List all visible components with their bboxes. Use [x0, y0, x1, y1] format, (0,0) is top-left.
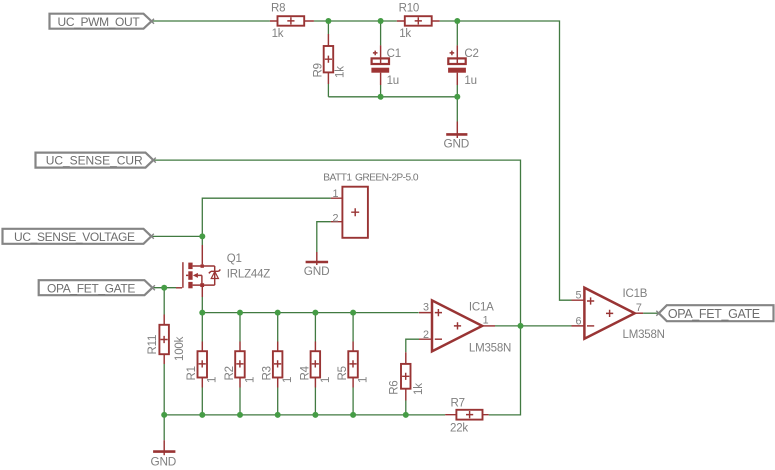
svg-text:C2: C2: [464, 48, 478, 60]
resistor R7: [445, 410, 489, 420]
wire OPA_FET_GATE to Q1 gate: [152, 287, 176, 289]
resistor R4: [311, 342, 321, 388]
junction node D: [199, 233, 205, 239]
svg-text:7: 7: [636, 302, 642, 314]
junction bottom bus R3: [275, 412, 281, 418]
svg-text:R4: R4: [299, 365, 311, 380]
svg-text:3: 3: [423, 302, 429, 314]
svg-text:UC_SENSE_VOLTAGE: UC_SENSE_VOLTAGE: [14, 230, 135, 244]
wire bottom bus to GND3: [163, 415, 165, 440]
svg-text:R6: R6: [389, 380, 401, 394]
svg-text:R3: R3: [262, 366, 274, 380]
wire R2 top stub: [239, 313, 241, 342]
capacitor C1: [371, 45, 389, 85]
svg-text:R10: R10: [399, 3, 420, 15]
junction top bus R5: [350, 310, 356, 316]
capacitor C2: [448, 45, 466, 85]
wire gate node to R11: [163, 288, 165, 315]
junction top bus R3: [275, 310, 281, 316]
junction bottom bus R2: [237, 412, 243, 418]
wire R3 top stub: [277, 313, 279, 342]
wire R3 bottom stub: [277, 388, 279, 415]
wire R4 bottom stub: [314, 388, 316, 415]
junction top bus R4: [312, 310, 318, 316]
svg-text:1k: 1k: [413, 383, 425, 395]
wire R10 to IC1B pin5 corner: [440, 21, 572, 300]
wire C2 to GND1: [456, 97, 458, 122]
resistor R1: [198, 342, 208, 388]
flag OPA_FET_GATE right: [656, 305, 773, 321]
svg-text:1: 1: [358, 377, 370, 383]
svg-text:1: 1: [282, 377, 294, 383]
svg-text:C1: C1: [387, 48, 401, 60]
wire IC1A pin2 to R6: [406, 339, 419, 352]
ground GND2 below BATT1: [306, 252, 329, 265]
resistor R11: [159, 315, 169, 365]
resistor R10: [397, 16, 440, 26]
junction bottom bus R6: [403, 412, 409, 418]
junction C1 bottom: [378, 94, 384, 100]
svg-text:IC1B: IC1B: [623, 288, 648, 300]
junction bottom bus R11: [161, 412, 167, 418]
wire top bus to IC1A pin3: [202, 312, 418, 314]
wire R8 to R10: [314, 20, 397, 22]
wire BATT1 pin1 to node D: [202, 198, 331, 236]
svg-text:OPA_FET_GATE: OPA_FET_GATE: [668, 307, 760, 321]
svg-text:1: 1: [244, 377, 256, 383]
svg-text:R2: R2: [224, 366, 236, 380]
resistor R5: [348, 342, 358, 388]
wire UC_SENSE_VOLTAGE to node D: [151, 235, 202, 237]
resistor R9: [324, 34, 334, 84]
junction bottom bus R1: [199, 412, 205, 418]
svg-text:GREEN-2P-5.0: GREEN-2P-5.0: [355, 173, 419, 184]
svg-text:R5: R5: [337, 366, 349, 380]
svg-text:1k: 1k: [272, 28, 284, 40]
svg-text:22k: 22k: [450, 423, 468, 435]
svg-text:R7: R7: [451, 397, 465, 409]
resistor R3: [273, 342, 283, 388]
flag UC_SENSE_VOLTAGE: [3, 229, 154, 244]
wire RC bottom bus: [328, 96, 457, 98]
svg-text:1: 1: [483, 314, 489, 326]
wire R1 top stub: [201, 313, 203, 342]
svg-text:R9: R9: [313, 63, 325, 77]
junction bottom bus R5: [350, 412, 356, 418]
svg-text:R11: R11: [147, 335, 159, 355]
wire bottom bus: [164, 414, 445, 416]
junction R8-R9: [325, 18, 331, 24]
svg-text:1k: 1k: [399, 28, 411, 40]
wire R9 bottom stub: [327, 84, 329, 97]
resistor R8: [270, 16, 314, 26]
wire C1 top stub: [380, 21, 382, 45]
wire R7 to junction A feedback: [489, 326, 521, 415]
resistor R2: [235, 342, 245, 388]
flag OPA_FET_GATE left: [39, 280, 155, 295]
ground GND3 below R11: [153, 440, 175, 455]
svg-text:5: 5: [576, 290, 582, 302]
svg-text:1: 1: [333, 188, 339, 200]
wire R4 top stub: [314, 313, 316, 342]
wire Q1 source to top bus: [201, 297, 203, 313]
wire junction A to IC1B pin6: [521, 325, 572, 327]
wire IC1A output to junction A: [495, 325, 521, 327]
svg-text:IC1A: IC1A: [469, 302, 494, 314]
svg-text:UC_PWM_OUT: UC_PWM_OUT: [58, 15, 141, 29]
wire node D to Q1 drain: [201, 236, 203, 245]
wire IC1B output to flag: [643, 312, 659, 314]
flag UC_SENSE_CUR: [36, 153, 156, 168]
junction top bus R1: [199, 310, 205, 316]
svg-text:OPA_FET_GATE: OPA_FET_GATE: [47, 281, 135, 295]
svg-text:1: 1: [320, 377, 332, 383]
svg-text:LM358N: LM358N: [623, 329, 665, 341]
wire UC_SENSE_CUR to junction A: [153, 160, 520, 326]
transistor Q1: [176, 245, 220, 297]
svg-text:1u: 1u: [464, 75, 476, 87]
wire C2 bottom stub: [456, 85, 458, 97]
svg-text:GND: GND: [151, 455, 177, 469]
svg-text:2: 2: [423, 329, 429, 341]
wire C2 top stub: [456, 21, 458, 45]
svg-text:Q1: Q1: [227, 253, 242, 265]
svg-text:1k: 1k: [335, 66, 347, 78]
svg-text:LM358N: LM358N: [469, 343, 511, 355]
svg-text:UC_SENSE_CUR: UC_SENSE_CUR: [46, 154, 143, 168]
junction C2 bottom: [454, 94, 460, 100]
wire UC_PWM_OUT to R8: [152, 20, 270, 22]
svg-text:2: 2: [333, 212, 339, 224]
svg-text:R1: R1: [186, 366, 198, 380]
svg-text:R8: R8: [271, 3, 285, 15]
wire BATT1 pin2 to GND2: [317, 222, 331, 252]
op-amp IC1B: [572, 288, 644, 339]
svg-text:6: 6: [576, 316, 582, 328]
wire R2 bottom stub: [239, 388, 241, 415]
svg-text:GND: GND: [304, 264, 330, 278]
wire R11 to bottom bus: [163, 364, 165, 415]
flag UC_PWM_OUT: [50, 14, 155, 29]
svg-text:GND: GND: [444, 136, 470, 150]
battery BATT1: [331, 187, 368, 238]
svg-text:IRLZ44Z: IRLZ44Z: [227, 269, 271, 281]
wire C1 bottom stub: [380, 85, 382, 97]
junction A output node: [518, 323, 524, 329]
wire R5 top stub: [352, 313, 354, 342]
resistor R6: [401, 352, 411, 400]
junction bottom bus R4: [312, 412, 318, 418]
junction gate node: [161, 285, 167, 291]
svg-text:BATT1: BATT1: [323, 173, 352, 184]
junction C1 top: [378, 18, 384, 24]
ground GND1 below C2: [446, 122, 467, 139]
wire R5 bottom stub: [352, 388, 354, 415]
wire R1 bottom stub: [201, 388, 203, 415]
svg-text:1u: 1u: [387, 75, 399, 87]
svg-text:1: 1: [207, 377, 219, 383]
op-amp IC1A: [419, 300, 495, 351]
svg-text:100k: 100k: [174, 336, 186, 361]
junction top bus R2: [237, 310, 243, 316]
wire R6 to bottom bus: [405, 401, 407, 415]
wire R9 top stub: [327, 21, 329, 34]
junction C2 top: [454, 18, 460, 24]
